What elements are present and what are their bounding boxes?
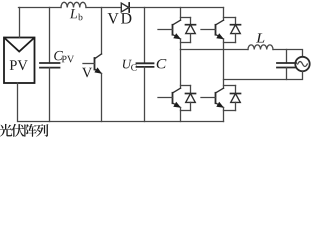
inductor L (filter) bbox=[248, 45, 273, 50]
IGBT Q2 top-right bbox=[201, 8, 224, 89]
IGBT Q4 bottom-right bbox=[201, 88, 224, 121]
label V bbox=[82, 68, 92, 78]
capacitor C (DC link) bbox=[137, 8, 154, 122]
diode D4 bottom-right bbox=[224, 86, 241, 111]
wire PV top lead bbox=[19, 8, 21, 38]
capacitor C_PV bbox=[40, 8, 60, 122]
diode D2 top-right bbox=[224, 18, 241, 43]
wire rail to AC source bbox=[273, 50, 303, 57]
label L_b (L) bbox=[70, 9, 77, 18]
IGBT Q3 bottom-left bbox=[158, 88, 181, 121]
wire bottom bus bbox=[19, 121, 224, 123]
text 光伏阵列 bbox=[0, 124, 48, 137]
inductor L_b bbox=[61, 2, 86, 7]
label U_C (U) bbox=[123, 60, 132, 69]
label L_b (sub b) bbox=[78, 14, 82, 21]
diode VD bbox=[121, 3, 129, 12]
label PV text bbox=[10, 60, 28, 70]
diode D1 top-left bbox=[181, 18, 196, 43]
wire PV bottom lead bbox=[17, 83, 19, 122]
label L bbox=[256, 33, 264, 42]
label VD bbox=[108, 13, 132, 24]
label C bbox=[157, 59, 167, 68]
wire left leg middle bbox=[180, 50, 182, 89]
photovoltaic panel PV bbox=[4, 38, 35, 84]
wire top bus right segment bbox=[129, 7, 223, 9]
wire output rail from left leg bbox=[181, 49, 249, 51]
filter capacitor bbox=[277, 50, 296, 80]
wire top bus mid segment bbox=[86, 7, 121, 9]
IGBT Q1 top-left bbox=[158, 8, 181, 50]
label C_PV (sub PV) bbox=[62, 56, 74, 63]
diode D3 bottom-left bbox=[181, 86, 196, 111]
label C_PV (C) bbox=[54, 51, 63, 60]
transistor V (boost switch) bbox=[83, 8, 102, 122]
label U_C (sub C) bbox=[131, 64, 136, 70]
AC source bbox=[295, 57, 309, 71]
wire AC bottom return bbox=[224, 71, 303, 79]
wire top bus left segment bbox=[19, 7, 62, 9]
